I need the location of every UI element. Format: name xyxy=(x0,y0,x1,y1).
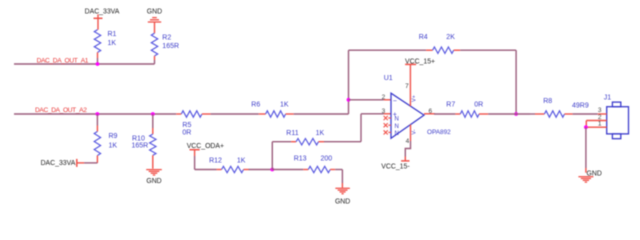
svg-text:DAC_33VA: DAC_33VA xyxy=(85,8,120,15)
svg-text:DAC_33VA: DAC_33VA xyxy=(41,160,76,167)
svg-text:1K: 1K xyxy=(237,157,246,164)
svg-text:R4: R4 xyxy=(419,34,428,41)
svg-text:GND: GND xyxy=(146,178,161,185)
svg-text:1K: 1K xyxy=(108,40,117,47)
svg-text:49R9: 49R9 xyxy=(572,103,589,110)
svg-text:0R: 0R xyxy=(474,102,483,109)
svg-text:R2: R2 xyxy=(162,35,171,42)
svg-text:4: 4 xyxy=(406,138,410,145)
svg-text:1K: 1K xyxy=(109,142,118,149)
svg-text:U1: U1 xyxy=(384,75,393,82)
svg-text:R9: R9 xyxy=(109,133,118,140)
svg-text:N: N xyxy=(395,131,399,137)
svg-text:1: 1 xyxy=(598,121,602,128)
svg-text:R7: R7 xyxy=(446,102,455,109)
svg-text:R13: R13 xyxy=(294,156,307,163)
svg-text:GND: GND xyxy=(587,170,602,177)
svg-text:3: 3 xyxy=(382,108,386,115)
svg-text:165R: 165R xyxy=(132,142,149,149)
svg-text:N: N xyxy=(395,124,399,130)
svg-text:R8: R8 xyxy=(543,98,552,105)
svg-text:V-: V- xyxy=(411,129,417,134)
svg-text:1K: 1K xyxy=(316,130,325,137)
svg-text:200: 200 xyxy=(321,156,333,163)
svg-text:N: N xyxy=(395,117,399,123)
svg-text:GND: GND xyxy=(147,8,162,15)
svg-text:VCC_15-: VCC_15- xyxy=(381,163,409,170)
svg-text:OPA892: OPA892 xyxy=(427,129,451,136)
svg-text:165R: 165R xyxy=(162,43,179,50)
svg-text:1K: 1K xyxy=(280,102,289,109)
svg-text:R12: R12 xyxy=(209,157,222,164)
svg-text:−: − xyxy=(393,98,397,105)
svg-text:VCC_ODA+: VCC_ODA+ xyxy=(187,143,224,150)
svg-text:VCC_15+: VCC_15+ xyxy=(405,59,435,66)
svg-text:7: 7 xyxy=(405,83,409,90)
svg-text:DAC_DA_OUT_A1: DAC_DA_OUT_A1 xyxy=(37,58,89,65)
svg-text:R11: R11 xyxy=(286,130,298,137)
svg-text:R1: R1 xyxy=(108,31,117,38)
svg-text:GND: GND xyxy=(335,199,350,206)
svg-text:J1: J1 xyxy=(604,94,612,101)
svg-text:R10: R10 xyxy=(132,135,145,142)
svg-text:V+: V+ xyxy=(411,95,417,102)
svg-text:R5: R5 xyxy=(182,122,191,129)
svg-text:R6: R6 xyxy=(251,102,260,109)
svg-text:2: 2 xyxy=(382,94,386,101)
svg-text:DAC_DA_OUT_A2: DAC_DA_OUT_A2 xyxy=(35,107,87,114)
svg-text:0R: 0R xyxy=(182,130,191,137)
svg-text:2K: 2K xyxy=(446,34,455,41)
